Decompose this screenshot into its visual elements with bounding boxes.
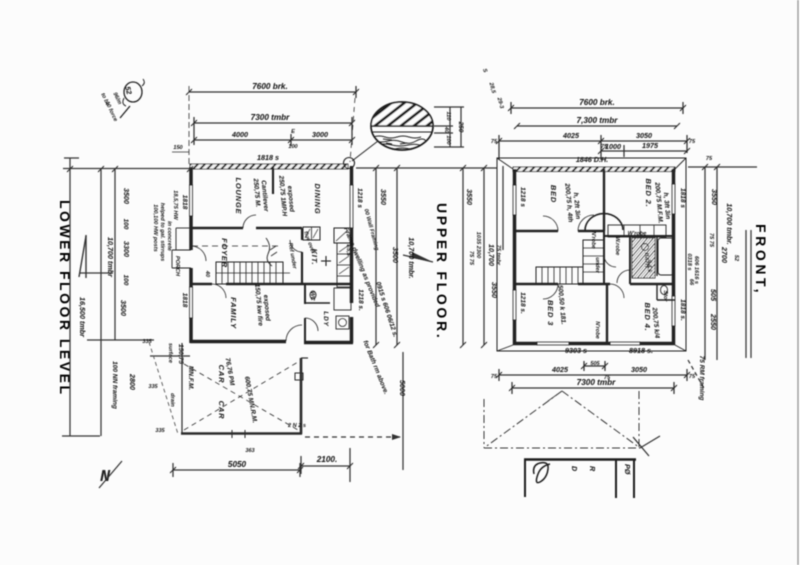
svg-text:2 N 2 s: 2 N 2 s [287,423,306,429]
svg-text:18,5,75 HW: 18,5,75 HW [172,190,178,220]
svg-text:10,700 tmbr: 10,700 tmbr [106,237,115,278]
svg-text:1218 s: 1218 s [356,188,363,208]
svg-text:PORCH: PORCH [174,256,180,277]
svg-text:BED 4.: BED 4. [643,303,652,332]
svg-text:3300: 3300 [122,241,131,257]
svg-text:1818 s: 1818 s [679,188,686,208]
svg-text:E: E [291,129,295,135]
svg-text:LOWER FLOOR LEVEL: LOWER FLOOR LEVEL [57,200,73,397]
svg-text:7600 brk.: 7600 brk. [252,82,288,91]
svg-text:surface: surface [167,343,173,363]
svg-text:1818 s.: 1818 s. [679,299,686,321]
svg-text:505: 505 [590,361,600,367]
svg-text:75 75: 75 75 [708,233,714,248]
svg-text:363: 363 [245,448,255,454]
svg-text:52: 52 [733,255,739,262]
svg-text:1035 2300: 1035 2300 [475,232,481,259]
svg-text:40: 40 [443,126,449,134]
svg-text:3550: 3550 [465,189,474,205]
svg-text:FAMILY: FAMILY [229,297,238,329]
svg-text:10,700: 10,700 [487,244,496,266]
svg-text:10,700 tmbr.: 10,700 tmbr. [407,237,416,279]
svg-text:1975: 1975 [642,141,659,150]
svg-text:10,700 tmbr.: 10,700 tmbr. [725,203,734,245]
svg-text:BED 3: BED 3 [546,300,555,326]
svg-text:WC: WC [309,291,315,301]
svg-text:1818 s: 1818 s [257,153,279,162]
svg-text:150: 150 [173,145,183,151]
svg-text:4000: 4000 [231,130,248,139]
svg-text:3500: 3500 [122,188,131,204]
svg-text:75: 75 [491,139,498,145]
svg-text:3050: 3050 [631,365,647,374]
svg-text:2550: 2550 [709,313,718,330]
svg-text:7300 tmbr: 7300 tmbr [577,378,616,387]
svg-text:LOUNGE: LOUNGE [234,178,243,215]
svg-text:7600 brk.: 7600 brk. [579,98,615,107]
svg-text:4025: 4025 [551,365,569,374]
svg-text:0318 s: 0318 s [686,253,692,270]
svg-text:W'robe: W'robe [628,231,647,237]
svg-text:3500: 3500 [119,300,128,316]
svg-text:100 NN framing: 100 NN framing [111,361,118,409]
svg-text:7300 tmbr: 7300 tmbr [251,113,290,122]
svg-text:1218 s.: 1218 s. [519,292,526,314]
svg-text:Stor: Stor [662,290,668,302]
svg-text:7,300 tmbr: 7,300 tmbr [577,116,619,125]
svg-text:9,4,6: 9,4,6 [646,260,652,273]
svg-text:335: 335 [142,339,152,345]
svg-text:5000: 5000 [398,380,407,396]
svg-text:BED: BED [549,185,558,203]
svg-text:3550: 3550 [490,282,499,298]
svg-text:FRONT,: FRONT, [753,224,769,296]
svg-text:CAR: CAR [217,365,226,384]
svg-text:5050: 5050 [228,460,247,469]
svg-text:drain: drain [169,393,175,407]
svg-text:75 75: 75 75 [468,251,474,266]
svg-text:40: 40 [204,270,210,278]
svg-text:3500: 3500 [391,247,400,263]
svg-text:75: 75 [706,156,713,162]
svg-text:2800: 2800 [128,373,137,390]
svg-text:R: R [588,466,597,472]
svg-text:N'robe: N'robe [594,321,600,339]
svg-text:110: 110 [445,112,451,122]
svg-text:1000: 1000 [605,142,621,151]
svg-text:1818: 1818 [181,293,188,308]
svg-text:100: 100 [122,275,129,286]
svg-text:2700: 2700 [720,246,729,263]
svg-text:606 1616 s: 606 1616 s [693,256,699,284]
svg-text:N'robe: N'robe [590,231,596,249]
svg-text:505: 505 [709,289,718,302]
svg-text:1218 s: 1218 s [519,187,526,207]
svg-text:250: 250 [457,121,464,133]
svg-text:3550: 3550 [710,189,719,205]
svg-text:335: 335 [148,384,158,390]
svg-text:75: 75 [689,139,696,145]
svg-text:in concrete: in concrete [166,221,172,251]
svg-text:under: under [594,257,600,273]
svg-text:LDY: LDY [322,311,329,326]
svg-text:100: 100 [122,219,129,230]
svg-text:1218 s.: 1218 s. [357,289,364,311]
svg-text:1818: 1818 [181,195,188,210]
svg-text:4025: 4025 [562,131,580,140]
svg-text:100,100 HW posts: 100,100 HW posts [152,204,158,252]
svg-text:8918 s.: 8918 s. [629,346,653,355]
svg-text:1846 D.H.: 1846 D.H. [576,155,608,164]
svg-text:100: 100 [288,144,298,150]
svg-text:75 tmbr: 75 tmbr [495,245,501,266]
svg-text:3050: 3050 [636,131,652,140]
svg-text:16,500 tmbr: 16,500 tmbr [78,297,87,338]
svg-text:9303 s: 9303 s [565,346,587,355]
svg-text:W.robe: W.robe [614,237,620,256]
svg-text:helped to gal. stirrups: helped to gal. stirrups [159,203,165,261]
svg-text:335: 335 [155,428,165,434]
svg-text:BED 2.: BED 2. [644,179,653,208]
svg-text:75: 75 [689,374,696,380]
svg-text:100: 100 [445,135,451,145]
svg-text:DINING: DINING [313,183,322,214]
svg-text:UPPER FLOOR.: UPPER FLOOR. [434,203,450,340]
svg-text:FOYER: FOYER [220,238,229,268]
svg-text:E5,5: E5,5 [345,244,351,256]
svg-text:150,75: 150,75 [177,344,184,364]
svg-text:2100.: 2100. [316,455,338,464]
svg-text:75 RM framing: 75 RM framing [698,356,705,401]
svg-text:D: D [570,466,579,471]
svg-text:PØ: PØ [623,464,632,475]
svg-text:3550: 3550 [379,189,388,205]
svg-text:CAR: CAR [217,401,226,420]
svg-text:3000: 3000 [312,130,328,139]
